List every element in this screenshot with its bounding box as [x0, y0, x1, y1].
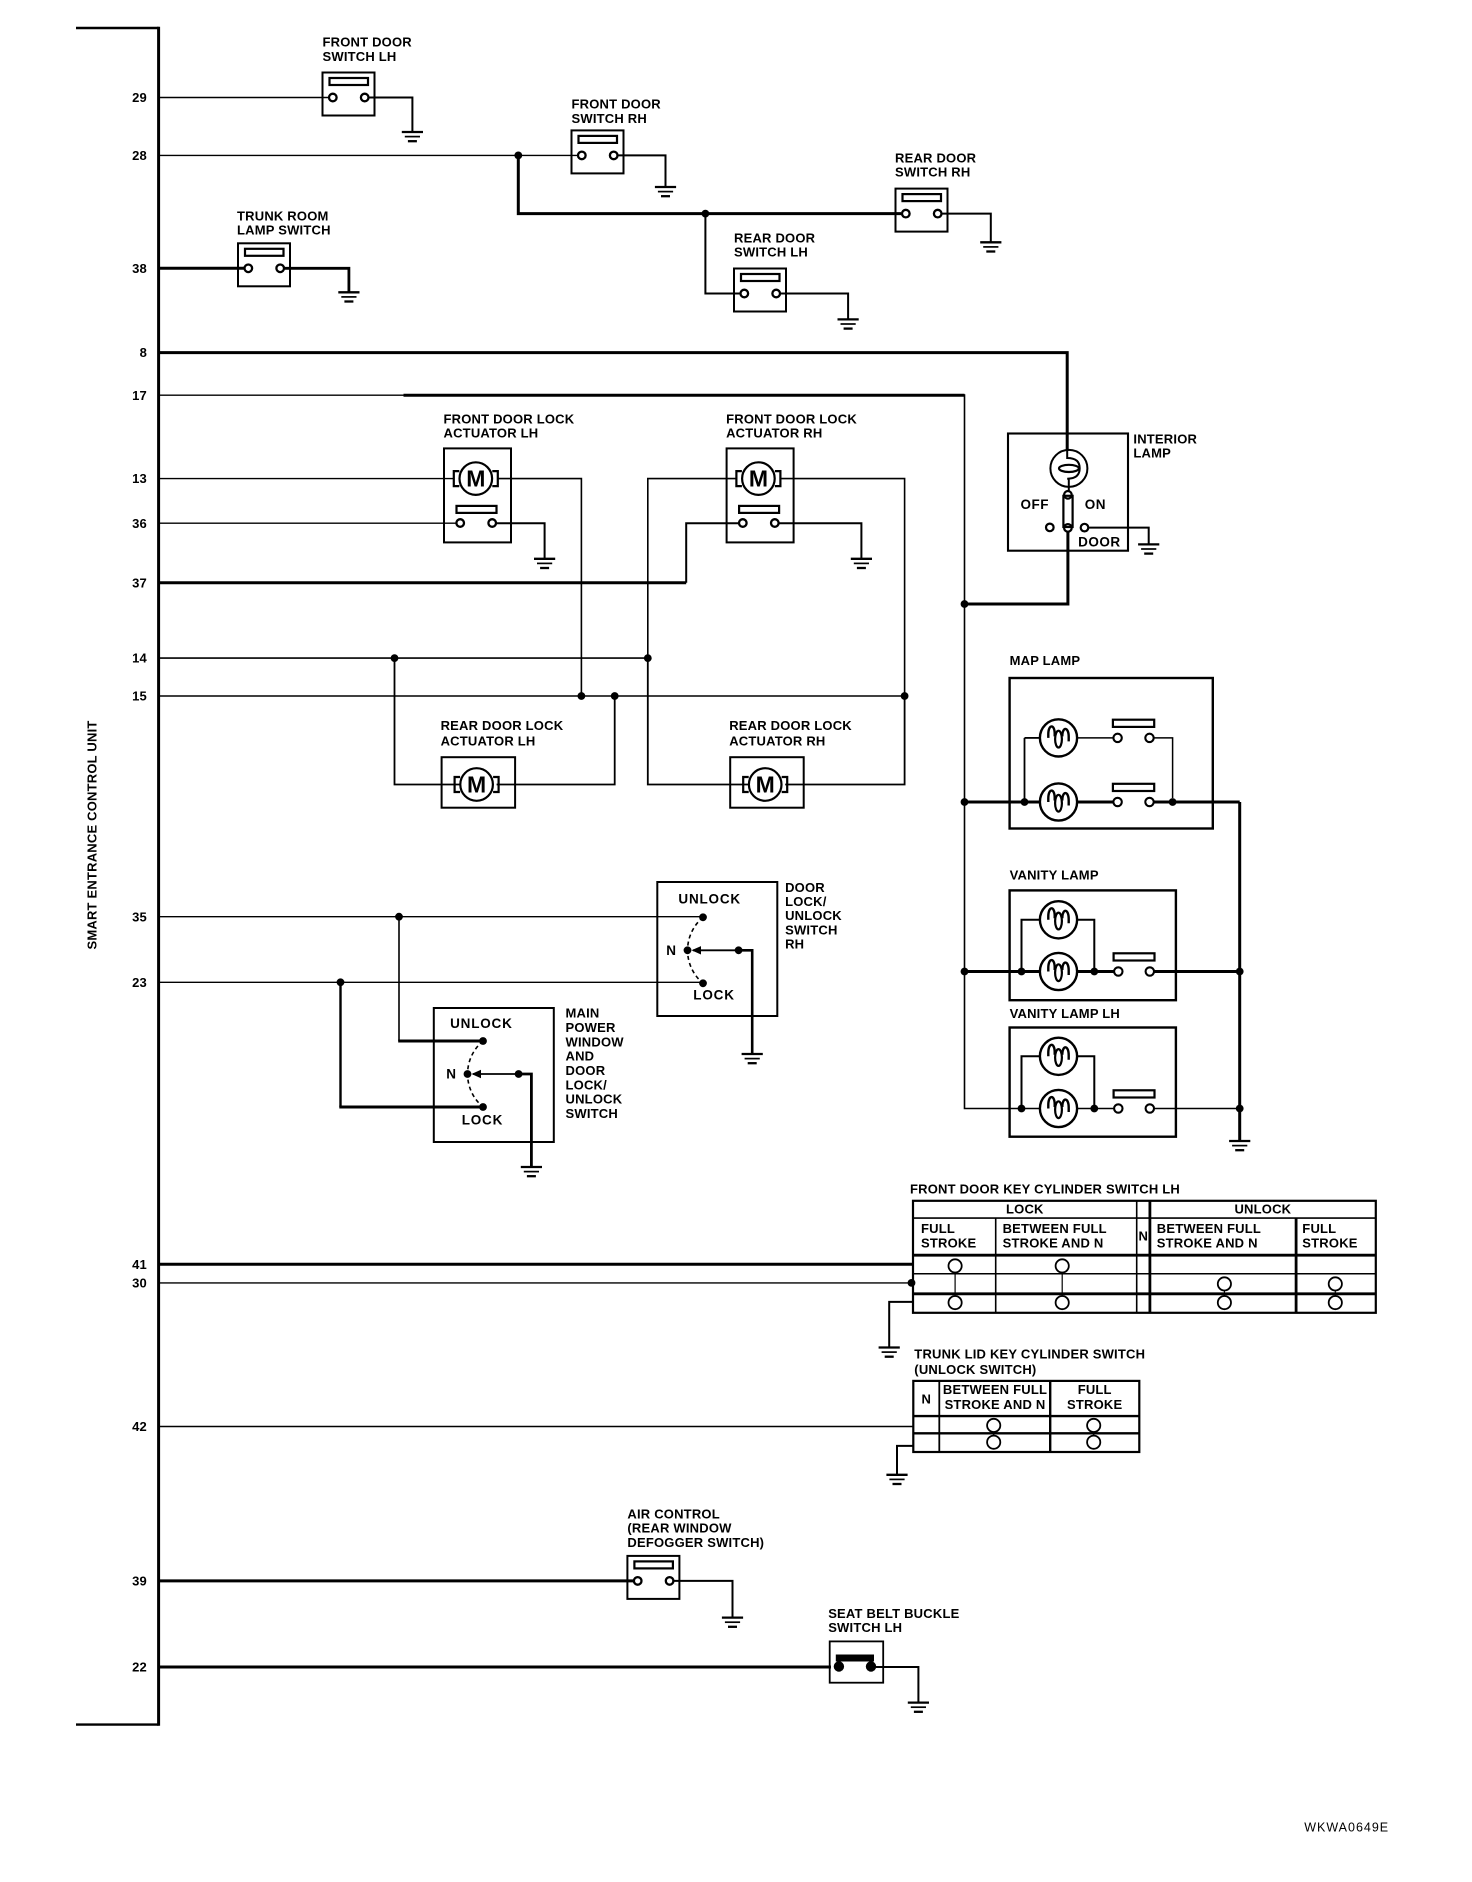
rear door switch RH [896, 189, 948, 232]
svg-text:AIR CONTROL: AIR CONTROL [627, 1506, 719, 1521]
front door switch RH [572, 130, 624, 173]
wire main power window switch to ground [519, 1074, 532, 1167]
svg-text:14: 14 [132, 651, 147, 666]
interior lamp label [1133, 431, 1197, 460]
front door lock actuator LH [444, 411, 575, 542]
air control label [627, 1506, 764, 1549]
trunk lid key cylinder switch label [914, 1347, 1145, 1377]
ground G11 [1229, 1141, 1250, 1150]
svg-text:FRONT DOOR: FRONT DOOR [323, 35, 413, 50]
wire front door switch RH to ground [618, 155, 665, 187]
wire rear door switch RH to ground [942, 214, 991, 243]
front door switch LH label [323, 35, 413, 64]
svg-text:M: M [749, 466, 768, 492]
front door key cylinder switch LH table [913, 1201, 1376, 1313]
svg-text:STROKE: STROKE [1302, 1235, 1358, 1250]
seat belt buckle switch LH label [828, 1606, 959, 1635]
svg-text:SWITCH LH: SWITCH LH [828, 1620, 902, 1635]
svg-text:(REAR WINDOW: (REAR WINDOW [627, 1521, 732, 1536]
svg-text:(UNLOCK SWITCH): (UNLOCK SWITCH) [914, 1362, 1036, 1377]
svg-text:M: M [467, 772, 486, 798]
wire key cylinder common to ground [889, 1302, 913, 1348]
wire interior lamp return to wire 17 [965, 532, 1068, 604]
trunk room lamp switch label [237, 208, 331, 237]
junction wire 35 branch to main switch [395, 913, 403, 921]
junction wire 17 at vanity lamp feed [961, 968, 969, 976]
wire 14 from pin 14 [159, 657, 648, 659]
door lock/unlock switch RH contacts [684, 913, 743, 987]
ground G3 [980, 242, 1001, 251]
svg-text:STROKE AND N: STROKE AND N [945, 1397, 1046, 1412]
control unit U1 bracket [76, 27, 159, 1726]
junction vanity bulb 1 branch [1018, 968, 1026, 976]
svg-text:N: N [666, 943, 676, 958]
front door lock actuator RH [726, 411, 857, 542]
svg-text:RH: RH [785, 937, 804, 952]
ground G13 [886, 1475, 907, 1484]
svg-text:FULL: FULL [921, 1221, 955, 1236]
wire front actuator RH lock switch to ground [779, 523, 862, 559]
svg-text:ACTUATOR LH: ACTUATOR LH [444, 426, 539, 441]
svg-text:ON: ON [1085, 497, 1106, 512]
vanity lamp LH [1010, 1006, 1176, 1137]
rear door switch RH label [895, 150, 977, 179]
wire 22 from pin 22 [159, 1666, 831, 1669]
svg-text:REAR DOOR: REAR DOOR [734, 230, 816, 245]
svg-text:SWITCH LH: SWITCH LH [734, 245, 808, 260]
svg-text:39: 39 [132, 1574, 147, 1589]
svg-text:SWITCH RH: SWITCH RH [572, 111, 647, 126]
svg-text:28: 28 [132, 148, 147, 163]
svg-text:SMART ENTRANCE CONTROL UNIT: SMART ENTRANCE CONTROL UNIT [85, 720, 100, 949]
wire map lamp row to vanity chain [1154, 801, 1240, 804]
wire map lamp feed row [965, 801, 1040, 804]
svg-text:M: M [756, 772, 775, 798]
wire 15 from pin 15 [159, 695, 905, 697]
wire trunk room lamp switch to ground [285, 268, 349, 292]
ground G4 [838, 319, 859, 328]
wire interior lamp DOOR contact to ground [1089, 528, 1149, 545]
wire 30 from pin 30 [159, 1282, 913, 1284]
wire 29 from pin 29 [159, 97, 329, 99]
svg-text:UNLOCK: UNLOCK [785, 908, 842, 923]
wire front door switch LH to ground [369, 98, 412, 133]
svg-text:23: 23 [132, 975, 147, 990]
wire 23 branch to main switch LOCK [339, 1106, 483, 1109]
svg-text:LAMP SWITCH: LAMP SWITCH [237, 223, 331, 238]
svg-text:SWITCH RH: SWITCH RH [895, 165, 970, 180]
wire 36 from pin 36 [159, 522, 457, 524]
junction wire 23 branch to main switch [337, 978, 345, 986]
wire 17 from pin 17 [159, 394, 405, 396]
svg-text:FRONT DOOR LOCK: FRONT DOOR LOCK [726, 411, 857, 426]
junction wire 15 rear actuator LH return [611, 692, 619, 700]
svg-text:REAR DOOR LOCK: REAR DOOR LOCK [729, 718, 852, 733]
svg-text:POWER: POWER [566, 1020, 617, 1035]
svg-text:LOCK: LOCK [693, 988, 734, 1003]
svg-text:DOOR: DOOR [785, 880, 825, 895]
vanity lamp [1010, 868, 1176, 1001]
ground G2 [655, 187, 676, 196]
svg-text:TRUNK LID KEY CYLINDER SWITCH: TRUNK LID KEY CYLINDER SWITCH [914, 1347, 1145, 1362]
wire rear actuator LH left from wire 14 [395, 658, 460, 784]
wire 37 riser to actuator RH lock switch [686, 523, 739, 583]
map lamp [1010, 653, 1213, 828]
svg-text:15: 15 [132, 689, 147, 704]
wire 8 from pin 8 to interior lamp [159, 353, 1068, 451]
front door switch RH label [572, 97, 662, 126]
junction vanity lamp at ground chain [1236, 968, 1244, 976]
svg-text:UNLOCK: UNLOCK [678, 892, 741, 907]
svg-text:LAMP: LAMP [1133, 446, 1171, 461]
seat belt buckle switch LH [830, 1641, 884, 1682]
svg-text:STROKE: STROKE [1067, 1397, 1123, 1412]
junction wire 17 at interior lamp return [961, 600, 969, 608]
wire 38 from pin 38 [159, 267, 244, 270]
svg-text:DOOR: DOOR [1078, 535, 1121, 550]
door lock/unlock switch RH label [785, 880, 842, 952]
wire 35 branch to main switch UNLOCK [398, 1040, 483, 1043]
svg-text:35: 35 [132, 909, 147, 924]
trunk lid key cylinder switch table [913, 1381, 1139, 1452]
wire vanity lamp to ground chain [1154, 970, 1240, 973]
ground G15 [908, 1703, 929, 1712]
svg-text:FULL: FULL [1302, 1221, 1336, 1236]
ground G9 [742, 1054, 763, 1063]
svg-text:LOCK/: LOCK/ [785, 894, 827, 909]
wire 28 branch to rear door switches [518, 155, 901, 213]
svg-text:STROKE AND N: STROKE AND N [1003, 1235, 1104, 1250]
door lock/unlock switch RH [657, 882, 777, 1016]
junction wire 17 at map lamp feed [961, 798, 969, 806]
main power window switch contacts [464, 1037, 523, 1111]
svg-text:AND: AND [566, 1049, 595, 1064]
svg-text:42: 42 [132, 1419, 147, 1434]
wire rear actuator RH left from wire 14 [648, 658, 748, 784]
junction wire 30 at table [908, 1279, 916, 1287]
svg-text:SWITCH: SWITCH [566, 1106, 618, 1121]
wire trunk key cylinder common to ground [897, 1446, 913, 1475]
svg-text:FULL: FULL [1078, 1382, 1112, 1397]
junction wire 15 rear actuator RH return [901, 692, 909, 700]
svg-text:41: 41 [132, 1257, 147, 1272]
svg-text:UNLOCK: UNLOCK [450, 1016, 513, 1031]
wire lamp ground chain [1238, 802, 1241, 1141]
junction map lamp bulb 1 branch [1021, 798, 1029, 806]
wire 17 thick segment [404, 394, 965, 397]
ground G12 [879, 1348, 900, 1357]
wire 13 from pin 13 [159, 478, 454, 480]
ground G1 [402, 132, 423, 141]
wire 41 from pin 41 [159, 1263, 913, 1266]
svg-text:FRONT DOOR LOCK: FRONT DOOR LOCK [444, 411, 575, 426]
front door switch LH [323, 73, 375, 116]
svg-text:N: N [446, 1067, 456, 1082]
junction vanity bulb 2 return [1090, 968, 1098, 976]
svg-text:FRONT DOOR KEY CYLINDER SWITCH: FRONT DOOR KEY CYLINDER SWITCH LH [910, 1181, 1180, 1196]
junction wire 14 rear actuator LH branch [391, 654, 399, 662]
wire front actuator LH lock switch to ground [496, 523, 545, 559]
svg-text:37: 37 [132, 575, 147, 590]
ground G5 [338, 292, 359, 301]
junction on wire 28 [514, 152, 522, 160]
svg-text:INTERIOR: INTERIOR [1133, 431, 1197, 446]
svg-text:M: M [466, 466, 485, 492]
svg-text:SEAT BELT BUCKLE: SEAT BELT BUCKLE [828, 1606, 959, 1621]
svg-text:MAP LAMP: MAP LAMP [1010, 653, 1081, 668]
svg-text:UNLOCK: UNLOCK [1234, 1201, 1291, 1216]
ground G10 [521, 1167, 542, 1176]
wire 37 from pin 37 [159, 581, 687, 584]
junction wire 14 rear actuator RH branch [644, 654, 652, 662]
svg-text:BETWEEN FULL: BETWEEN FULL [943, 1382, 1047, 1397]
wire front actuator LH to wire 15 [498, 479, 581, 696]
wire 35 from pin 35 [159, 916, 703, 918]
junction vanity LH bulb 1 branch [1018, 1105, 1026, 1113]
wire 42 from pin 42 [159, 1426, 914, 1428]
wire branch down to rear door switch LH [705, 214, 739, 294]
wire door lock/unlock switch RH to ground [739, 950, 753, 1054]
svg-text:OFF: OFF [1021, 497, 1050, 512]
svg-text:VANITY LAMP: VANITY LAMP [1010, 868, 1099, 883]
wire 17 riser down lamp feed column [965, 394, 1014, 1108]
svg-text:VANITY LAMP LH: VANITY LAMP LH [1010, 1006, 1120, 1021]
wire seat belt buckle switch to ground [876, 1667, 918, 1703]
svg-text:UNLOCK: UNLOCK [566, 1092, 623, 1107]
ground G7 [851, 559, 872, 568]
svg-text:22: 22 [132, 1660, 147, 1675]
rear door lock actuator RH [729, 718, 852, 808]
rear door lock actuator LH [441, 718, 564, 808]
svg-text:STROKE AND N: STROKE AND N [1157, 1235, 1258, 1250]
interior lamp [1008, 434, 1128, 551]
wire air control to ground [674, 1581, 733, 1618]
svg-text:SWITCH LH: SWITCH LH [323, 49, 397, 64]
junction map lamp switch 1 return [1169, 798, 1177, 806]
svg-text:N: N [1139, 1228, 1149, 1243]
junction wire 15 front actuator LH return [578, 692, 586, 700]
svg-text:ACTUATOR RH: ACTUATOR RH [726, 426, 822, 441]
air control rear window defogger switch [627, 1556, 679, 1599]
junction vanity LH bulb 2 return [1090, 1105, 1098, 1113]
svg-text:BETWEEN FULL: BETWEEN FULL [1157, 1221, 1261, 1236]
svg-text:WKWA0649E: WKWA0649E [1304, 1820, 1389, 1834]
svg-text:DOOR: DOOR [566, 1063, 606, 1078]
ground G6 [534, 559, 555, 568]
wire 35 branch riser [398, 917, 400, 1041]
wire front actuator RH right to wire 15 [781, 479, 905, 696]
svg-text:30: 30 [132, 1276, 147, 1291]
trunk room lamp switch [238, 243, 290, 286]
main power window switch label [566, 1006, 625, 1121]
main power window and door lock/unlock switch [434, 1008, 554, 1142]
wire 39 from pin 39 [159, 1579, 633, 1582]
svg-text:BETWEEN FULL: BETWEEN FULL [1003, 1221, 1107, 1236]
svg-text:LOCK/: LOCK/ [566, 1077, 608, 1092]
rear door switch LH label [734, 230, 816, 259]
svg-text:TRUNK ROOM: TRUNK ROOM [237, 208, 329, 223]
svg-text:8: 8 [140, 345, 147, 360]
wire 28 from pin 28 [159, 154, 578, 156]
svg-text:36: 36 [132, 516, 147, 531]
svg-text:DEFOGGER SWITCH): DEFOGGER SWITCH) [627, 1535, 764, 1550]
svg-text:LOCK: LOCK [1006, 1201, 1044, 1216]
svg-text:ACTUATOR LH: ACTUATOR LH [441, 733, 536, 748]
wire 23 branch riser [339, 982, 341, 1107]
wire front actuator RH left to wire 14 [648, 479, 736, 658]
svg-text:38: 38 [132, 261, 147, 276]
wire rear door switch LH to ground [781, 294, 848, 320]
svg-text:13: 13 [132, 471, 147, 486]
svg-text:SWITCH: SWITCH [785, 922, 837, 937]
svg-text:ACTUATOR RH: ACTUATOR RH [729, 733, 825, 748]
svg-text:MAIN: MAIN [566, 1006, 600, 1021]
ground G14 [722, 1618, 743, 1627]
wire vanity lamp LH to ground chain [1154, 1108, 1240, 1110]
ground G8 [1138, 544, 1159, 553]
svg-text:STROKE: STROKE [921, 1235, 977, 1250]
svg-text:REAR DOOR LOCK: REAR DOOR LOCK [441, 718, 564, 733]
svg-text:FRONT DOOR: FRONT DOOR [572, 97, 662, 112]
svg-text:N: N [922, 1391, 932, 1406]
junction vanity lamp LH at ground chain [1236, 1105, 1244, 1113]
svg-text:29: 29 [132, 90, 147, 105]
rear door switch LH [734, 269, 786, 312]
wire vanity lamp feed row [965, 970, 1040, 973]
wire rear actuator LH right to wire 15 [497, 696, 615, 785]
wire 23 from pin 23 [159, 981, 703, 983]
wire vanity lamp LH feed row [1013, 1108, 1040, 1110]
wire rear actuator RH right to wire 15 [785, 696, 904, 785]
svg-text:REAR DOOR: REAR DOOR [895, 150, 977, 165]
svg-text:17: 17 [132, 388, 147, 403]
svg-text:LOCK: LOCK [462, 1112, 503, 1127]
svg-text:WINDOW: WINDOW [566, 1034, 625, 1049]
junction rear door switch LH branch [702, 210, 710, 218]
